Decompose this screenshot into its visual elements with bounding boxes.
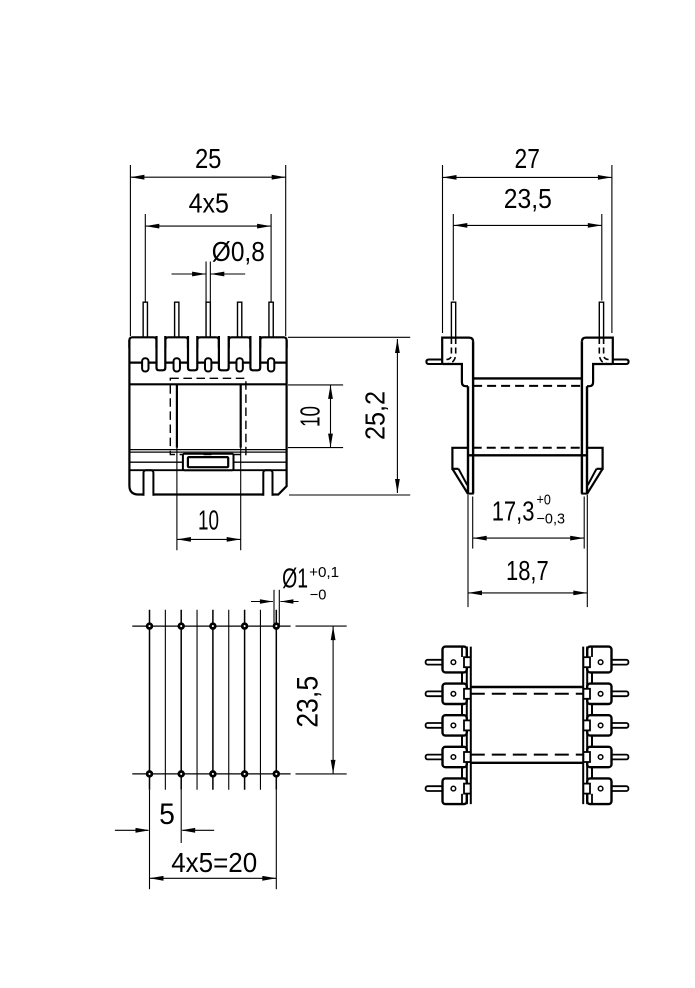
- svg-text:23,5: 23,5: [504, 183, 552, 214]
- svg-text:25: 25: [195, 143, 222, 174]
- svg-text:−0,3: −0,3: [537, 511, 566, 528]
- svg-text:23,5: 23,5: [292, 676, 325, 728]
- svg-text:17,3: 17,3: [492, 495, 535, 526]
- svg-text:−0: −0: [310, 587, 327, 604]
- svg-text:4x5=20: 4x5=20: [171, 847, 257, 878]
- svg-text:+0,1: +0,1: [309, 564, 339, 581]
- svg-text:27: 27: [515, 143, 540, 174]
- svg-text:18,7: 18,7: [506, 555, 549, 586]
- svg-text:Ø1: Ø1: [282, 562, 308, 593]
- svg-text:25,2: 25,2: [360, 391, 391, 440]
- svg-text:+0: +0: [537, 492, 551, 509]
- svg-text:5: 5: [159, 798, 175, 831]
- svg-text:10: 10: [295, 406, 326, 427]
- svg-text:Ø0,8: Ø0,8: [212, 236, 265, 267]
- svg-text:10: 10: [198, 505, 219, 536]
- svg-text:4x5: 4x5: [189, 187, 229, 218]
